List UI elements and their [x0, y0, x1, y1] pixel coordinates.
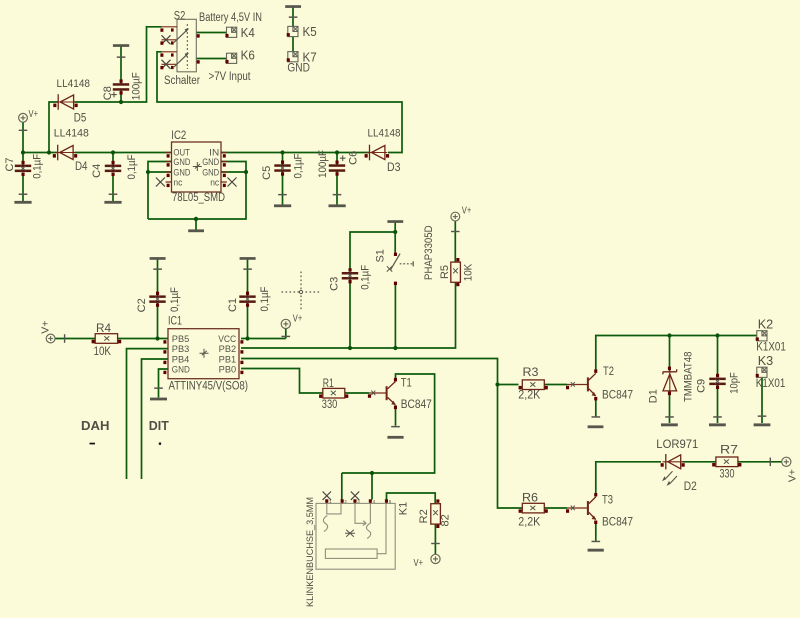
svg-text:K2: K2	[758, 316, 774, 331]
wire IC1 GND to ground	[159, 369, 169, 398]
capacitor C6 (polarized)	[329, 155, 346, 175]
label BC847 of T1	[401, 399, 432, 411]
svg-text:C6: C6	[347, 151, 359, 165]
label V+ right rotated	[786, 469, 798, 482]
svg-text:K1X01: K1X01	[756, 378, 786, 390]
supply V+ at R5	[451, 212, 460, 232]
svg-text:D4: D4	[75, 161, 88, 173]
supply V+ at R4	[46, 334, 65, 343]
label 330 of R7	[720, 469, 735, 481]
label TMMBAT48 rotated	[682, 352, 694, 403]
svg-text:PB4: PB4	[172, 354, 190, 364]
svg-text:R3: R3	[523, 367, 539, 379]
label V+ top left	[29, 108, 39, 120]
svg-text:V+: V+	[293, 312, 303, 324]
label 100uF of C8 rotated	[131, 72, 143, 100]
svg-text:R4: R4	[96, 323, 112, 335]
label K1X01 of K3	[756, 378, 786, 390]
supply V+ below R2	[431, 543, 440, 564]
svg-text:R7: R7	[720, 445, 738, 457]
label C1 rotated	[227, 298, 239, 312]
wire S2 to K6	[196, 58, 226, 60]
label R6	[522, 493, 538, 505]
svg-text:S1: S1	[375, 249, 387, 262]
label 0,1uF of C2 rotated	[169, 287, 181, 312]
label R1	[323, 378, 334, 390]
svg-text:nc: nc	[173, 178, 182, 188]
svg-text:K1X01: K1X01	[756, 341, 786, 353]
node DIT label	[149, 419, 169, 445]
svg-text:10K: 10K	[462, 263, 474, 281]
label 0,1uF of C3 rotated	[359, 265, 371, 290]
node C4 junction	[111, 150, 115, 154]
ground below C9	[709, 416, 726, 426]
ground below IC2	[188, 229, 204, 232]
label 100uF of C6 rotated	[317, 150, 329, 178]
svg-text:C9: C9	[695, 379, 707, 393]
svg-text:0,1µF: 0,1µF	[259, 286, 271, 311]
label BC847 of T3	[602, 517, 633, 529]
svg-text:C5: C5	[261, 166, 273, 180]
label R7	[720, 445, 738, 457]
connector K6	[225, 53, 236, 63]
node D5 riser junction	[47, 150, 51, 154]
svg-text:PHAP3305D: PHAP3305D	[423, 225, 435, 280]
label >7V Input	[209, 71, 252, 83]
label K4	[241, 25, 255, 40]
wire C7 to ground	[22, 173, 24, 202]
label D1 rotated	[648, 389, 660, 403]
svg-text:C1: C1	[227, 298, 239, 312]
svg-text:R2: R2	[418, 509, 430, 523]
label R2 rotated	[418, 509, 430, 523]
wire T2 emitter to ground	[595, 398, 597, 417]
label 82 of R2 rotated	[440, 514, 452, 526]
wire R2 to V+	[434, 524, 436, 554]
wire C5 to ground	[282, 171, 284, 204]
capacitor C4	[105, 161, 121, 176]
wire D1 bottom to ground	[669, 392, 671, 423]
transistor T1 BC847	[368, 378, 397, 409]
wire PB3 net (DIT paddle)	[127, 349, 169, 479]
svg-text:nc: nc	[210, 178, 219, 188]
wire D2 to R7	[683, 461, 717, 463]
label C9 rotated	[695, 379, 707, 393]
label 0,1uF of C5 rotated	[293, 153, 305, 178]
label BC847 of T2	[602, 389, 633, 401]
node S1 PB2 junction	[393, 346, 397, 350]
wire C1 top to ground bar	[247, 260, 249, 297]
svg-text:78L05_SMD: 78L05_SMD	[172, 192, 225, 204]
label Battery 4,5V IN	[199, 12, 262, 24]
label K3	[758, 353, 774, 368]
label GND under K7	[287, 63, 310, 75]
capacitor C3	[342, 268, 358, 283]
diode D2 LOR971 LED	[661, 454, 685, 486]
svg-text:D1: D1	[648, 389, 660, 403]
svg-text:C7: C7	[4, 157, 16, 171]
svg-text:DIT: DIT	[149, 419, 169, 433]
wire C4 to ground	[112, 173, 114, 202]
svg-text:C4: C4	[91, 164, 103, 178]
node D1 rail junction	[667, 333, 671, 337]
svg-text:BC847: BC847	[401, 399, 432, 411]
node C8 junction	[119, 100, 123, 104]
svg-text:PB3: PB3	[172, 344, 190, 354]
label C4 rotated	[91, 164, 103, 178]
svg-text:GND: GND	[287, 63, 310, 75]
label C3 rotated	[329, 277, 341, 291]
wire IC2 GND bottom and right	[148, 162, 246, 230]
wire T3 emitter to ground	[595, 522, 597, 541]
svg-text:KLINKENBUCHSE_3,5MM: KLINKENBUCHSE_3,5MM	[305, 497, 316, 607]
ground below T2	[588, 416, 604, 428]
wire VCC net (IC1 VCC, C1, V+)	[241, 303, 286, 339]
wire V+ to R5 top	[454, 221, 456, 262]
label V+ at R4 rotated	[39, 321, 51, 334]
capacitor C2	[149, 292, 165, 307]
wire S1 bottom lead	[394, 284, 396, 348]
ground below T3	[588, 541, 604, 552]
ground below IC1 GND	[150, 387, 167, 400]
svg-text:330: 330	[720, 469, 735, 481]
node IC2 gnd left junction	[146, 170, 150, 174]
label 0,1uF of C7 rotated	[31, 154, 43, 179]
svg-text:C2: C2	[136, 298, 148, 312]
label K1X01 of K2	[756, 341, 786, 353]
wire IC2 GND left	[148, 162, 172, 220]
ground below K3	[754, 415, 771, 426]
node C6 junction	[335, 150, 339, 154]
svg-text:GND: GND	[172, 364, 190, 374]
ground above C2	[150, 257, 166, 270]
svg-text:Battery 4,5V IN: Battery 4,5V IN	[199, 12, 262, 24]
connector K2	[756, 331, 767, 341]
label 10K of R5 rotated	[462, 263, 474, 281]
label D3	[387, 162, 401, 174]
svg-text:V+: V+	[39, 321, 51, 334]
resistor R3	[519, 380, 548, 390]
diode D3 LL4148	[365, 145, 390, 161]
connector K3	[756, 367, 767, 377]
ground below C7	[14, 194, 31, 204]
wire R6 to T3 base	[545, 507, 568, 509]
svg-text:0,1µF: 0,1µF	[359, 265, 371, 290]
node C5 junction	[280, 150, 284, 154]
wire C3 bottom lead	[349, 280, 351, 349]
label C5 rotated	[261, 166, 273, 180]
svg-text:ATTINY45/V(SO8): ATTINY45/V(SO8)	[169, 381, 249, 393]
resistor R1	[319, 388, 348, 398]
supply V+ top left	[19, 113, 28, 131]
svg-text:GND: GND	[202, 157, 219, 167]
wire GND bar to K5	[292, 7, 294, 27]
diode D5 LL4148	[53, 94, 77, 110]
label V+ at C1	[293, 312, 303, 324]
svg-text:100µF: 100µF	[317, 150, 329, 178]
wire jack pin5 to R2	[387, 493, 436, 504]
ground below C4	[104, 194, 121, 204]
label PHAP3305D rotated	[423, 225, 435, 280]
label 10K of R4	[94, 346, 112, 358]
ground below C6	[329, 194, 346, 207]
svg-text:K4: K4	[241, 25, 255, 40]
svg-text:K3: K3	[758, 353, 774, 368]
wire PB4 net (DAH paddle)	[142, 359, 169, 479]
label C2 rotated	[136, 298, 148, 312]
svg-text:D5: D5	[74, 112, 87, 124]
svg-text:LL4148: LL4148	[368, 128, 401, 140]
svg-text:10pF: 10pF	[729, 372, 741, 394]
node IC2 gnd right junction	[244, 170, 248, 174]
node C1 VCC junction	[245, 336, 249, 340]
label 330 of R1	[322, 399, 338, 411]
svg-text:IC1: IC1	[168, 314, 182, 328]
svg-text:2,2K: 2,2K	[518, 389, 540, 401]
wire V+ R4 PB5 net	[55, 303, 168, 339]
node C2 PB5 junction	[155, 336, 159, 340]
label 0,1uF of C4 rotated	[126, 154, 138, 179]
node R3 branch junction	[495, 382, 499, 386]
svg-text:10K: 10K	[94, 346, 112, 358]
capacitor C1	[239, 292, 255, 307]
wire PB0 net to R1	[241, 369, 323, 394]
svg-text:V+: V+	[786, 469, 798, 482]
connector K1 jack KLINKENBUCHSE 3,5MM	[316, 492, 395, 570]
svg-text:C3: C3	[329, 277, 341, 291]
wire V+ rail left (V+ to D4 anode, D5 branch riser)	[23, 102, 59, 166]
label D5	[74, 112, 87, 124]
svg-text:K6: K6	[241, 47, 255, 62]
label D2	[684, 481, 697, 493]
svg-text:>7V Input: >7V Input	[209, 71, 252, 83]
svg-text:LOR971: LOR971	[656, 439, 698, 451]
label K5	[303, 24, 317, 39]
wire >7V input net (S2 pin3 to D3 anode)	[157, 52, 402, 153]
svg-text:VCC: VCC	[218, 334, 236, 344]
wire battery 4.5V net (D5 anode / C8 / S2 pin1)	[75, 27, 162, 103]
svg-text:GND: GND	[173, 168, 190, 178]
label LL4148 of D3	[368, 128, 401, 140]
svg-text:Schalter: Schalter	[164, 75, 200, 87]
ground below D1	[661, 416, 678, 426]
resistor R2 (vertical)	[431, 499, 441, 528]
resistor R5 (vertical)	[451, 258, 461, 286]
label V+ at R5	[462, 205, 472, 217]
label C6 rotated	[347, 151, 359, 165]
label LL4148 of D4	[54, 127, 89, 139]
label S2	[174, 9, 186, 23]
svg-text:T1: T1	[401, 377, 412, 389]
wire T1 collector to jack K1	[342, 374, 435, 500]
svg-text:82: 82	[440, 514, 452, 526]
supply V+ at C1/VCC	[281, 319, 290, 337]
svg-text:GND: GND	[173, 157, 190, 167]
label K2	[758, 316, 774, 331]
resistor R7	[712, 457, 741, 467]
wire C6 to ground	[336, 171, 338, 204]
connector K7	[287, 52, 298, 62]
wire IC2 OUT net	[75, 153, 172, 166]
label T3	[602, 495, 613, 507]
svg-text:IN: IN	[209, 148, 219, 158]
wire T3 collector to D2	[596, 462, 661, 496]
wire R7 to V+	[738, 461, 782, 463]
ground above C8	[113, 44, 129, 58]
ground below T1	[387, 426, 403, 439]
svg-text:PB2: PB2	[219, 344, 237, 354]
ground below C5	[274, 194, 291, 207]
resistor R4	[92, 334, 122, 344]
node DAH label	[81, 419, 110, 444]
ground above K5	[285, 5, 301, 18]
svg-text:BC847: BC847	[602, 517, 633, 529]
wire ground bar to S1/C3 top	[350, 222, 395, 272]
label K7	[303, 49, 317, 64]
label 2,2K of R6	[518, 517, 540, 529]
svg-text:V+: V+	[414, 557, 424, 569]
capacitor C9	[709, 374, 725, 389]
svg-text:LL4148: LL4148	[54, 127, 89, 139]
capacitor C8 (polarized)	[111, 79, 129, 97]
op-amp region none	[156, 128, 248, 393]
wire S2 to K4	[196, 32, 226, 34]
label R3	[523, 367, 539, 379]
svg-text:R5: R5	[439, 265, 451, 279]
svg-text:100µF: 100µF	[131, 72, 143, 100]
svg-text:PB5: PB5	[172, 334, 190, 344]
label R4	[96, 323, 112, 335]
wire K3 to ground	[761, 377, 763, 423]
label C8 rotated	[102, 86, 114, 100]
label KLINKENBUCHSE_3,5MM rotated	[305, 497, 316, 607]
label C7 rotated	[4, 157, 16, 171]
wire T1 emitter to ground	[395, 405, 397, 426]
node C9 rail junction	[715, 333, 719, 337]
svg-text:330: 330	[322, 399, 338, 411]
node C3 PB2 junction	[348, 346, 352, 350]
svg-text:R6: R6	[522, 493, 538, 505]
wire IC2 IN net (C5 C6 D3)	[221, 153, 369, 165]
wire K5 to K7	[292, 37, 294, 52]
node dashed crosshair origin mark	[282, 272, 321, 312]
node V+ C7 junction	[21, 150, 25, 154]
svg-text:K1: K1	[398, 502, 410, 515]
svg-text:V+: V+	[29, 108, 39, 120]
svg-text:K5: K5	[303, 24, 317, 39]
node jack pin4 junction	[370, 471, 374, 475]
svg-text:S2: S2	[174, 9, 186, 23]
svg-text:0,1µF: 0,1µF	[126, 154, 138, 179]
capacitor C7	[15, 161, 31, 176]
node S1 top junction	[393, 230, 397, 234]
IC2 78L05_SMD regulator	[156, 128, 237, 204]
label D4	[75, 161, 88, 173]
svg-text:V+: V+	[462, 205, 472, 217]
node IC2 gnd bottom junction	[194, 217, 198, 221]
svg-text:OUT: OUT	[173, 148, 190, 158]
supply V+ right of R7	[770, 457, 791, 466]
resistor R6	[519, 503, 548, 513]
wire R3 to T2 base	[545, 384, 568, 386]
label 2,2K of R3	[518, 389, 540, 401]
svg-text:GND: GND	[202, 168, 219, 178]
capacitor C5	[274, 161, 290, 176]
connector K4	[225, 27, 236, 37]
svg-text:0,1µF: 0,1µF	[31, 154, 43, 179]
label S1 rotated	[375, 249, 387, 262]
transistor T2 BC847	[566, 369, 597, 400]
transistor T3 BC847	[566, 493, 597, 524]
svg-text:2,2K: 2,2K	[518, 517, 540, 529]
svg-text:D2: D2	[684, 481, 697, 493]
svg-text:T2: T2	[603, 366, 614, 378]
svg-text:PB0: PB0	[219, 364, 237, 374]
label LL4148 of D5	[57, 78, 91, 90]
svg-text:D3: D3	[387, 162, 401, 174]
svg-text:C8: C8	[102, 86, 114, 100]
wire C2 top to ground bar	[157, 260, 159, 297]
svg-text:DAH: DAH	[81, 419, 110, 433]
label 10pF rotated	[729, 372, 741, 394]
switch S1 PHAP3305D pushbutton	[387, 253, 413, 285]
svg-text:TMMBAT48: TMMBAT48	[682, 352, 694, 403]
wire PB1 net (to R6 and R3 branch)	[241, 359, 522, 509]
diode D1 TMMBAT48 (schottky, vertical)	[663, 367, 677, 396]
ground above S1	[387, 220, 403, 223]
label K1 rotated	[398, 502, 410, 515]
svg-text:PB1: PB1	[219, 354, 237, 364]
label T1	[401, 377, 412, 389]
label 0,1uF of C1 rotated	[259, 286, 271, 311]
connector K5	[287, 26, 298, 36]
svg-text:IC2: IC2	[171, 128, 186, 142]
svg-text:0,1µF: 0,1µF	[293, 153, 305, 178]
diode D4 LL4148	[53, 145, 77, 161]
switch S2 Schalter	[160, 19, 199, 72]
svg-text:BC847: BC847	[602, 389, 633, 401]
IC1 ATTINY45	[163, 314, 248, 393]
label Schalter	[164, 75, 200, 87]
label LOR971	[656, 439, 698, 451]
svg-text:T3: T3	[602, 495, 613, 507]
label V+ below R2	[414, 557, 424, 569]
label R5 rotated	[439, 265, 451, 279]
label K6	[241, 47, 255, 62]
wire C9 bottom to ground	[717, 384, 719, 423]
ground above C1	[240, 257, 256, 270]
wire PB2 net (IC1 to C3/S1/R5)	[241, 282, 456, 348]
wire R1 to T1 base	[345, 392, 369, 394]
svg-text:R1: R1	[323, 378, 334, 390]
wire T2 collector rail to K2 (D1 C9 taps)	[596, 336, 757, 378]
label T2	[603, 366, 614, 378]
svg-text:LL4148: LL4148	[57, 78, 91, 90]
svg-text:0,1µF: 0,1µF	[169, 287, 181, 312]
